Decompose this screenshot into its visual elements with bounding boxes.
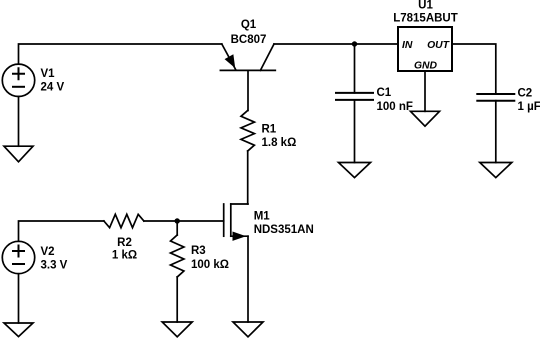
wire R3 to ground [176,277,178,322]
wire R1 to M1 drain [247,151,249,204]
ground (under U1) [411,111,440,126]
voltage source V1 [2,64,34,96]
wire collector rail [274,43,398,45]
op-amp U1 regulator [398,27,452,71]
svg-text:100 kΩ: 100 kΩ [191,259,229,271]
ground (under R3) [162,322,192,337]
node junction at R3 [175,218,180,223]
svg-text:V1: V1 [41,68,56,80]
wire R2 to gate [144,220,224,222]
label C2 1 uF [518,87,540,113]
label Q1 BC807 [231,19,267,46]
resistor R1 [241,111,254,152]
ground (under M1) [233,322,263,337]
ground (under C2) [480,163,512,178]
svg-text:R1: R1 [262,123,277,135]
svg-text:M1: M1 [254,210,271,222]
svg-text:C2: C2 [518,87,533,99]
svg-text:R2: R2 [117,237,132,249]
svg-text:L7815ABUT: L7815ABUT [393,13,458,25]
label R1 1.8 kOhm [262,123,297,149]
capacitor C1 [336,93,373,100]
svg-text:1.8 kΩ: 1.8 kΩ [262,137,297,149]
transistor M1 [224,204,248,240]
svg-text:OUT: OUT [427,40,451,51]
svg-text:U1: U1 [418,0,433,12]
svg-text:V2: V2 [41,246,55,258]
voltage source V2 [2,241,34,273]
svg-text:C1: C1 [377,87,392,99]
label R2 1 kOhm [112,237,137,261]
label R3 100 kOhm [191,245,229,271]
wire V1 bottom to ground [18,97,20,147]
node junction at C1 [352,41,357,46]
ground (under V1) [4,146,33,162]
svg-text:100 nF: 100 nF [377,101,413,113]
wire V2 bottom to ground [18,274,20,323]
transistor Q1 [220,44,275,70]
label M1 NDS351AN [254,210,314,236]
ground (under C1) [339,163,371,178]
wire junction to R3 [176,221,178,235]
svg-text:1 kΩ: 1 kΩ [112,249,137,261]
label V2 3.3 V [41,246,68,271]
resistor R3 [171,235,184,277]
wire C1 to ground [354,100,356,163]
wire V2 top to rail [19,221,104,241]
svg-text:GND: GND [414,61,438,72]
wire M1 source down [247,236,249,322]
ground (under V2) [4,323,33,337]
svg-text:24 V: 24 V [41,82,65,94]
svg-text:Q1: Q1 [241,19,257,31]
svg-text:NDS351AN: NDS351AN [254,224,314,236]
wire V1 top to rail [19,44,222,64]
svg-text:IN: IN [402,40,413,51]
wire U1 GND pin [424,71,426,111]
svg-text:BC807: BC807 [231,34,267,46]
label C1 100 nF [377,87,413,113]
label V1 24 V [41,68,65,93]
wire C2 to ground [495,101,497,163]
svg-text:3.3 V: 3.3 V [41,259,68,271]
svg-text:1 µF: 1 µF [518,101,540,113]
capacitor C2 [477,94,514,101]
svg-text:R3: R3 [191,245,206,257]
wire rail to C1 [354,44,356,93]
wire base down [247,70,249,110]
resistor R2 [104,214,144,227]
wire U1 OUT to C2 [452,44,496,94]
label U1 L7815ABUT [393,0,458,25]
